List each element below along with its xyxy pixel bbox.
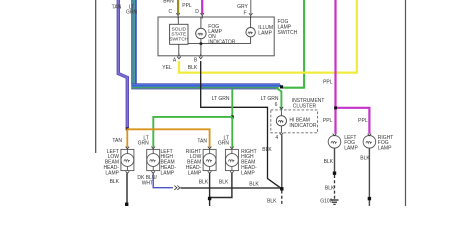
- svg-text:C: C: [168, 9, 172, 15]
- svg-text:YEL: YEL: [162, 65, 172, 71]
- svg-text:INDICATOR: INDICATOR: [208, 39, 235, 45]
- lamp: left fog lamp: [328, 134, 358, 152]
- wire: DK BLU/WHT from left high headlamp to connector: [153, 173, 173, 187]
- svg-text:GRN: GRN: [218, 141, 230, 147]
- pin terminal B: [194, 54, 203, 64]
- svg-text:BLK: BLK: [267, 198, 277, 204]
- svg-text:PPL: PPL: [358, 118, 368, 124]
- solid state switch box: [169, 24, 188, 44]
- wire: PPL stub at terminal D: [201, 0, 203, 14]
- svg-text:A: A: [173, 57, 177, 63]
- svg-text:BLK: BLK: [188, 65, 198, 71]
- svg-text:6: 6: [275, 102, 278, 108]
- wire: solid state switch to terminal A: [178, 44, 180, 56]
- wire: dashed BLK below ground junction: [281, 191, 283, 207]
- wire: right border line: [405, 0, 407, 206]
- svg-text:CLUSTER: CLUSTER: [293, 104, 317, 110]
- wire: BLK ground right high headlamp joins right low: [210, 173, 232, 197]
- svg-text:LAMP: LAMP: [378, 145, 392, 151]
- svg-text:LT GRN: LT GRN: [212, 96, 230, 102]
- svg-text:SWITCH: SWITCH: [278, 30, 298, 36]
- wire: BLK ground left low headlamp: [126, 173, 128, 206]
- pin instrument cluster terminal 4: [275, 133, 283, 141]
- svg-text:BLK: BLK: [219, 179, 229, 185]
- node: dot on left fog ground: [333, 172, 336, 175]
- svg-text:BRN: BRN: [163, 0, 174, 5]
- wire: BLK ground right low headlamp: [209, 173, 211, 206]
- svg-text:TAN: TAN: [112, 138, 122, 144]
- svg-text:LAMP: LAMP: [161, 170, 175, 176]
- svg-text:GRY: GRY: [237, 4, 248, 10]
- svg-text:GRN: GRN: [126, 9, 138, 15]
- svg-text:BLK: BLK: [360, 155, 370, 161]
- label: DK BLU/WHT: [137, 175, 157, 187]
- label: LT GRN top left: [126, 4, 138, 15]
- svg-text:BLK: BLK: [324, 159, 334, 165]
- svg-text:4: 4: [275, 135, 278, 141]
- svg-text:SWITCH: SWITCH: [169, 36, 188, 42]
- pin terminal F: [243, 10, 252, 18]
- headlamp: right high beam: [225, 147, 257, 177]
- headlamp: left low beam: [103, 147, 133, 177]
- wire: solid state switch to terminal C: [177, 17, 179, 24]
- svg-text:LAMP: LAMP: [258, 30, 272, 36]
- svg-text:B: B: [194, 57, 198, 63]
- wire: BRN stub at terminal C: [177, 0, 179, 14]
- svg-text:BLK: BLK: [199, 179, 209, 185]
- pin terminal C: [168, 9, 179, 19]
- svg-text:BLK: BLK: [325, 185, 335, 191]
- label: fog lamp switch: [278, 19, 298, 36]
- node: bus end junction dot: [280, 85, 283, 88]
- pin terminal A: [173, 54, 181, 64]
- svg-text:TAN: TAN: [197, 138, 207, 144]
- wire: TAN feed (purple) from top left: [118, 0, 127, 128]
- instrument cluster dashed box: [271, 98, 325, 133]
- svg-text:LT GRN: LT GRN: [261, 96, 279, 102]
- wire: LT GRN branch to left high beam and right high beam headlamps: [153, 117, 232, 148]
- headlamp: right low beam: [186, 147, 216, 177]
- svg-text:LAMP: LAMP: [344, 145, 358, 151]
- ground: G108: [320, 199, 338, 205]
- svg-text:WHT: WHT: [142, 180, 153, 186]
- wire: BLK ground left fog lamp: [334, 148, 336, 172]
- svg-text:LAMP: LAMP: [241, 170, 255, 176]
- lamp: illumination lamp: [246, 17, 273, 44]
- wire: BLK from hi beam indicator down to ground junction: [281, 135, 283, 189]
- wire: LT GRN from dimmer (top right) to bus end dot: [283, 0, 304, 88]
- pin terminal D: [195, 9, 204, 19]
- label: LT GRN above left high headlamp: [138, 136, 150, 147]
- svg-text:LAMP: LAMP: [188, 170, 202, 176]
- wire: YEL from switch terminal A to top right: [179, 0, 357, 73]
- wire: TAN branch to left low beam and right low beam headlamps: [127, 129, 209, 148]
- wire: internal bus SSS to indicator to illum lamp: [188, 43, 251, 45]
- node: TAN junction dot at purple wire end: [126, 127, 129, 130]
- wire: partial left border BLK: [95, 0, 97, 153]
- svg-text:BLK: BLK: [262, 147, 272, 153]
- wire: PPL from top right down to fog lamps: [336, 0, 370, 134]
- node: internal junction dot: [200, 42, 203, 45]
- lamp: right fog lamp: [363, 134, 393, 152]
- svg-text:GRN: GRN: [138, 141, 150, 147]
- fog lamp switch box outline: [158, 17, 274, 56]
- svg-text:LAMP: LAMP: [105, 170, 119, 176]
- svg-text:INDICATOR: INDICATOR: [289, 123, 316, 129]
- lamp: hi beam indicator: [276, 111, 317, 133]
- headlamp: left high beam: [147, 147, 177, 177]
- node: dot joining right headlamp grounds: [208, 197, 211, 200]
- label: LT GRN above right high headlamp: [218, 136, 230, 147]
- svg-text:F: F: [243, 10, 246, 16]
- wire: GRY stub at terminal F: [250, 0, 252, 14]
- svg-text:BLK: BLK: [110, 179, 120, 185]
- svg-text:PPL: PPL: [323, 79, 333, 85]
- svg-text:D: D: [195, 9, 199, 15]
- node: PPL branch dot: [334, 106, 337, 109]
- svg-text:G108: G108: [320, 199, 332, 205]
- svg-text:PPL: PPL: [323, 118, 333, 124]
- connector: in-line connector on dk blu/wht wire: [174, 186, 180, 190]
- svg-text:BLK: BLK: [249, 182, 259, 188]
- wire: LT GRN drop from bus to headlamp branch: [231, 89, 233, 117]
- wire: dashed BLK to G108: [334, 175, 336, 199]
- wire: BLK bus from connector to ground junction dot: [181, 187, 282, 189]
- node: ground junction dot: [280, 187, 283, 190]
- wire: DK BLU / LT GRN composite vertical from top left: [131, 0, 137, 84]
- wire: thick DK BLU bus horizontal with LT GRN underline: [131, 83, 280, 89]
- wire: BLK from switch terminal B to ground junction: [201, 61, 282, 189]
- svg-text:PPL: PPL: [182, 3, 192, 9]
- svg-text:TAN: TAN: [112, 4, 122, 10]
- node: LT GRN branch dot: [231, 116, 234, 119]
- wire: LT GRN from bus end down to instrument cluster term 6: [276, 88, 281, 110]
- wire: BLK ground right fog lamp: [368, 148, 370, 206]
- wire: internal junction down to terminal B: [200, 44, 202, 56]
- pin instrument cluster terminal 6: [275, 102, 284, 109]
- lamp: fog lamp on indicator: [196, 17, 236, 45]
- node: dot on right fog ground: [368, 197, 371, 200]
- node: dot at bottom of left low ground: [125, 203, 128, 206]
